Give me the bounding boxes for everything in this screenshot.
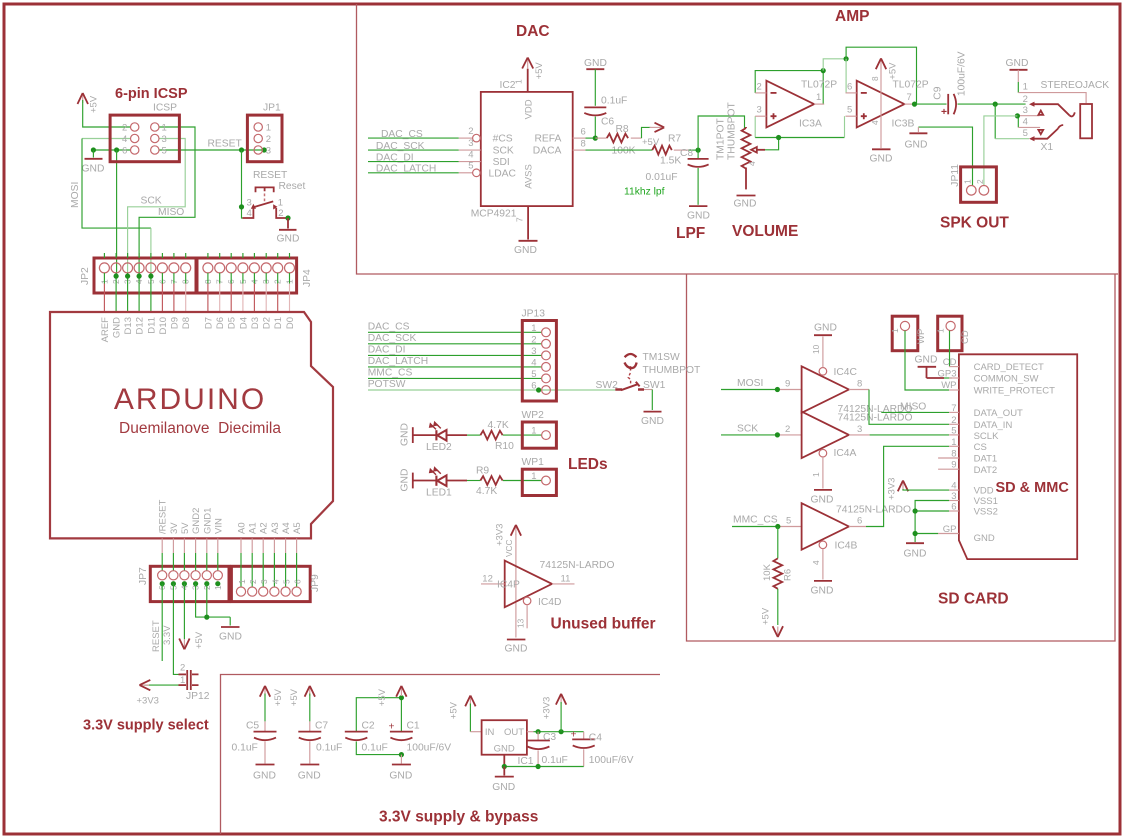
pin JP7 5 bbox=[172, 538, 174, 553]
svg-text:0.1uF: 0.1uF bbox=[232, 743, 258, 754]
junction IC3B minus node bbox=[844, 56, 849, 61]
LED LED1 bbox=[429, 467, 446, 486]
pin JP4 7 bbox=[219, 253, 221, 258]
svg-text:3.3V supply & bypass: 3.3V supply & bypass bbox=[379, 809, 538, 826]
svg-text:MISO: MISO bbox=[158, 207, 184, 218]
wire DAC_DI net bbox=[368, 161, 459, 163]
pin JP13 4 bbox=[542, 363, 551, 372]
svg-text:0.1uF: 0.1uF bbox=[542, 755, 568, 766]
wire REFA to junction bbox=[586, 137, 599, 139]
wire GND to COMMON_SW bbox=[927, 377, 945, 379]
pin WP2 1 bbox=[542, 431, 551, 440]
wire SCK net: ICSP pin3 to JP2 pin3 bbox=[128, 139, 186, 277]
pin ICSP 4 bbox=[131, 134, 139, 142]
ground GND (IC2) bbox=[514, 241, 538, 256]
pin 12 input bbox=[481, 583, 505, 585]
svg-text:DAT1: DAT1 bbox=[974, 454, 998, 465]
connector WP1 box bbox=[522, 469, 556, 495]
svg-text:+5V: +5V bbox=[377, 688, 388, 706]
svg-text:5: 5 bbox=[1023, 128, 1028, 139]
svg-text:SCK: SCK bbox=[141, 196, 162, 207]
svg-text:A3: A3 bbox=[270, 522, 281, 534]
svg-text:6-pin ICSP: 6-pin ICSP bbox=[115, 86, 188, 102]
svg-text:3: 3 bbox=[951, 491, 956, 502]
svg-text:7: 7 bbox=[951, 403, 956, 414]
junction JP7 bbox=[204, 581, 209, 586]
svg-text:1: 1 bbox=[531, 471, 536, 482]
wire output to C9 bbox=[917, 103, 947, 105]
pin 1 enable bottom bubble bbox=[819, 449, 827, 457]
wire +5V to IC1 IN bbox=[469, 704, 471, 732]
junction volume wiper node bbox=[776, 135, 781, 140]
svg-text:DAC: DAC bbox=[516, 23, 550, 40]
svg-text:C5: C5 bbox=[246, 721, 259, 732]
svg-text:4: 4 bbox=[747, 161, 757, 166]
junction MOSI bbox=[775, 387, 780, 392]
junction VSS2 bbox=[913, 508, 918, 513]
svg-text:1: 1 bbox=[890, 328, 900, 333]
wire C7 top bbox=[309, 694, 311, 722]
junction JP7 bbox=[182, 581, 187, 586]
svg-text:IC3A: IC3A bbox=[799, 119, 822, 130]
svg-text:+5V: +5V bbox=[194, 631, 205, 649]
svg-text:6: 6 bbox=[531, 381, 536, 392]
svg-text:1: 1 bbox=[278, 197, 283, 208]
svg-text:DAC_LATCH: DAC_LATCH bbox=[376, 164, 436, 175]
svg-text:TM1POT: TM1POT bbox=[716, 118, 727, 160]
svg-text:100uF/6V: 100uF/6V bbox=[589, 755, 634, 766]
svg-text:REFA: REFA bbox=[534, 134, 561, 145]
ground GND (JP7) bbox=[219, 617, 242, 642]
capacitor C2 0.1uF bbox=[345, 732, 368, 741]
svg-text:CARD_DETECT: CARD_DETECT bbox=[974, 362, 1044, 373]
svg-text:CD: CD bbox=[960, 330, 971, 344]
svg-text:2: 2 bbox=[531, 334, 536, 345]
section box 3.3V supply bbox=[221, 675, 661, 835]
power +5V arrow (IC1) bbox=[465, 696, 475, 707]
svg-text:VCC: VCC bbox=[504, 539, 514, 557]
svg-text:+3V3: +3V3 bbox=[887, 478, 898, 500]
wire IC3A feedback bbox=[755, 71, 823, 105]
svg-text:JP12: JP12 bbox=[186, 691, 210, 702]
svg-text:100uF/6V: 100uF/6V bbox=[407, 743, 452, 754]
svg-text:0.1uF: 0.1uF bbox=[362, 743, 388, 754]
SD card pin 6 VSS2 bbox=[949, 510, 959, 512]
pin 5 LDAC with bubble bbox=[459, 172, 473, 174]
svg-text:GND: GND bbox=[400, 423, 411, 446]
svg-text:LEDs: LEDs bbox=[568, 456, 608, 473]
connector X1 STEREOJACK bbox=[1018, 80, 1109, 153]
wire VSS1 VSS2 GND bus bbox=[915, 501, 949, 543]
wire DAC_DI to JP13 bbox=[368, 354, 542, 356]
connector JP4 box bbox=[197, 258, 297, 293]
svg-text:100K: 100K bbox=[612, 146, 636, 157]
svg-text:4: 4 bbox=[951, 481, 956, 492]
svg-text:JP1: JP1 bbox=[263, 103, 281, 114]
svg-text:3: 3 bbox=[259, 579, 269, 584]
svg-text:5V: 5V bbox=[180, 522, 191, 534]
junction JP1 pin3 bbox=[262, 147, 267, 152]
wire SCK to IC4A bbox=[721, 434, 777, 436]
svg-text:5: 5 bbox=[162, 146, 167, 157]
ground GND (LED2) rotated bbox=[400, 423, 413, 446]
svg-text:6: 6 bbox=[857, 515, 862, 526]
svg-text:D4: D4 bbox=[238, 317, 249, 329]
svg-text:+5V: +5V bbox=[761, 607, 772, 625]
wire MISO net: ICSP pin1 to JP2 pin4 bbox=[139, 127, 195, 276]
svg-text:IC3B: IC3B bbox=[892, 119, 915, 130]
svg-text:2: 2 bbox=[1023, 94, 1028, 105]
svg-text:VIN: VIN bbox=[213, 518, 224, 534]
pin ICSP 6 bbox=[131, 146, 139, 154]
svg-text:POTSW: POTSW bbox=[368, 379, 406, 390]
svg-text:3.3V supply select: 3.3V supply select bbox=[83, 718, 209, 734]
Arduino shield outline bbox=[50, 312, 333, 538]
wire MISO DATA_OUT bbox=[881, 411, 949, 413]
svg-text:3: 3 bbox=[1023, 105, 1028, 116]
svg-text:3: 3 bbox=[857, 424, 862, 435]
pin JP13 5 bbox=[542, 374, 551, 383]
svg-text:DATA_IN: DATA_IN bbox=[974, 420, 1013, 431]
svg-text:8: 8 bbox=[581, 139, 586, 150]
svg-text:GND: GND bbox=[112, 317, 123, 338]
svg-text:+5V: +5V bbox=[642, 137, 660, 148]
svg-text:SW2: SW2 bbox=[596, 380, 619, 391]
junction MMC_CS bbox=[775, 524, 780, 529]
svg-text:74125N-LARDO: 74125N-LARDO bbox=[540, 560, 615, 571]
svg-text:100uF/6V: 100uF/6V bbox=[957, 51, 968, 96]
pin 11 output bbox=[552, 583, 575, 585]
wire IC3B feedback top bbox=[846, 47, 916, 104]
svg-text:GND: GND bbox=[494, 743, 515, 754]
svg-text:3V: 3V bbox=[169, 522, 180, 534]
pin JP2 3 bbox=[127, 253, 129, 258]
wire C5 bottom bbox=[264, 742, 266, 764]
power +5V arrow (C1) bbox=[396, 686, 406, 697]
pin 4 enable bottom bubble bbox=[819, 541, 827, 549]
svg-text:2: 2 bbox=[468, 126, 473, 137]
pin WP1 1 bbox=[542, 476, 551, 485]
pin JP4 1 bbox=[289, 253, 291, 258]
svg-text:A2: A2 bbox=[259, 522, 270, 534]
wire RESET drop to switch contacts bbox=[241, 150, 244, 218]
junction JP2 pin3 bbox=[125, 274, 130, 279]
ground GND (IC1) bbox=[492, 767, 515, 794]
SD card pin 7 DATA_OUT bbox=[949, 411, 959, 413]
svg-text:DAC_CS: DAC_CS bbox=[368, 322, 410, 333]
wire DAC_SCK to JP13 bbox=[368, 343, 542, 345]
svg-text:12: 12 bbox=[482, 574, 493, 585]
wire CD to CARD_DETECT bbox=[949, 331, 951, 367]
svg-text:4: 4 bbox=[531, 357, 536, 368]
pin 2 #CS with bubble bbox=[459, 137, 473, 139]
power +3V3 arrow (IC1) bbox=[556, 694, 566, 705]
wire 3.3V to JP12 bbox=[173, 584, 178, 675]
svg-text:CS: CS bbox=[974, 442, 987, 453]
svg-text:GND: GND bbox=[253, 771, 276, 782]
svg-text:5: 5 bbox=[282, 579, 292, 584]
svg-text:AREF: AREF bbox=[100, 317, 111, 343]
svg-text:DAC_DI: DAC_DI bbox=[368, 345, 406, 356]
svg-text:3: 3 bbox=[757, 105, 762, 116]
svg-text:2: 2 bbox=[951, 415, 956, 426]
svg-text:4: 4 bbox=[270, 579, 280, 584]
buffer IC4D triangle bbox=[505, 561, 552, 608]
svg-text:GND: GND bbox=[389, 771, 412, 782]
connector JP13 box bbox=[522, 321, 556, 402]
wire LPF node to pot bbox=[698, 116, 744, 150]
svg-text:TL072P: TL072P bbox=[801, 79, 837, 90]
SD card pin GP3 bbox=[949, 377, 959, 379]
svg-text:SCLK: SCLK bbox=[974, 431, 999, 442]
svg-text:0.01uF: 0.01uF bbox=[646, 172, 678, 183]
switch lever SW2-SW1 bbox=[615, 382, 644, 390]
svg-text:R10: R10 bbox=[495, 441, 514, 452]
power +5V arrow (C5) bbox=[260, 686, 270, 697]
svg-text:1: 1 bbox=[266, 123, 271, 134]
SD card connector outline bbox=[959, 354, 1077, 559]
svg-text:GND2: GND2 bbox=[191, 508, 202, 534]
wire DAC_CS net bbox=[368, 137, 459, 139]
pin JP7 4 bbox=[183, 538, 185, 553]
svg-text:5: 5 bbox=[468, 161, 473, 172]
pin JP9 5 bbox=[285, 538, 287, 553]
svg-text:+5V: +5V bbox=[89, 95, 100, 113]
svg-text:5: 5 bbox=[786, 515, 791, 526]
svg-text:GND: GND bbox=[870, 154, 893, 165]
svg-text:D13: D13 bbox=[123, 317, 134, 334]
resistor R10 4.7K bbox=[480, 431, 502, 440]
svg-text:1: 1 bbox=[936, 328, 946, 333]
pin JP7 2 bbox=[206, 538, 208, 553]
junction LPF node bbox=[696, 148, 701, 153]
svg-text:MOSI: MOSI bbox=[70, 182, 81, 208]
wire LED2 to R10 bbox=[447, 434, 468, 436]
junction JP11 pin2 node bbox=[1015, 113, 1020, 118]
capacitor C4 100uF/6V polarized bbox=[571, 729, 596, 766]
svg-text:D7: D7 bbox=[203, 317, 214, 329]
svg-text:JP2: JP2 bbox=[80, 267, 91, 285]
svg-text:LED2: LED2 bbox=[426, 442, 452, 453]
svg-text:GND: GND bbox=[505, 644, 528, 655]
connector JP11 box bbox=[961, 167, 997, 202]
pin JP7 6 bbox=[161, 538, 163, 553]
svg-text:0.1uF: 0.1uF bbox=[601, 95, 627, 106]
svg-text:RESET: RESET bbox=[208, 138, 243, 149]
junction switch GND bbox=[285, 215, 290, 220]
svg-text:74125N-LARDO: 74125N-LARDO bbox=[836, 505, 911, 516]
svg-text:13: 13 bbox=[516, 618, 526, 628]
junction IC3B output bbox=[912, 102, 917, 107]
svg-text:#CS: #CS bbox=[493, 134, 513, 145]
svg-text:5: 5 bbox=[847, 105, 852, 116]
svg-text:JP13: JP13 bbox=[522, 309, 546, 320]
svg-text:3: 3 bbox=[162, 134, 167, 145]
junction jack node bbox=[993, 102, 998, 107]
svg-text:4: 4 bbox=[1023, 117, 1028, 128]
pin 4 SDI bbox=[459, 161, 481, 163]
ground GND (IC4D) bbox=[505, 640, 528, 655]
svg-text:7: 7 bbox=[515, 217, 525, 222]
pin CD 1 bbox=[946, 321, 955, 330]
resistor R6 10K vertical bbox=[777, 527, 779, 559]
svg-text:5: 5 bbox=[531, 369, 536, 380]
svg-text:GND: GND bbox=[219, 632, 242, 643]
svg-text:R8: R8 bbox=[616, 124, 629, 135]
op-amp IC3A TL072P bbox=[755, 81, 824, 128]
svg-text:MMC_CS: MMC_CS bbox=[368, 368, 413, 379]
wire R6 to +5V down arrow bbox=[777, 589, 779, 625]
wire JP11 pin2 to jack pin3 bbox=[984, 116, 1018, 186]
svg-text:C1: C1 bbox=[407, 721, 420, 732]
svg-text:GP: GP bbox=[943, 524, 957, 535]
pin JP13 3 bbox=[542, 351, 551, 360]
power +5V arrow (ICSP) bbox=[78, 93, 89, 104]
svg-text:GND: GND bbox=[904, 549, 927, 560]
svg-text:1: 1 bbox=[162, 123, 167, 134]
wire MMC_CS to IC4B bbox=[732, 526, 778, 528]
wire +3V3 to JP12 pin1 bbox=[144, 684, 179, 686]
svg-text:10: 10 bbox=[811, 344, 821, 354]
junction REFA node bbox=[593, 136, 598, 141]
wire C1 bottom stub bbox=[400, 755, 402, 764]
junction JP7 bbox=[171, 581, 176, 586]
power +5V arrow (IC3B) bbox=[876, 58, 886, 69]
capacitor C6 0.1uF bbox=[584, 107, 606, 115]
svg-text:D12: D12 bbox=[135, 317, 146, 334]
svg-text:LDAC: LDAC bbox=[489, 168, 517, 179]
capacitor C8 0.01uF bbox=[688, 150, 709, 205]
junction C3 top bbox=[536, 729, 541, 734]
svg-text:AMP: AMP bbox=[835, 8, 869, 25]
pin JP1 2 bbox=[254, 134, 262, 142]
pin JP4 3 bbox=[265, 253, 267, 258]
SD card pin GP GND bbox=[938, 533, 959, 535]
jumper JP12 3.3V supply select bbox=[179, 663, 210, 703]
svg-text:IC4C: IC4C bbox=[834, 367, 858, 378]
svg-text:GND: GND bbox=[584, 58, 607, 69]
pin JP11 1 bbox=[967, 186, 977, 196]
wire POTSW to JP13 and SW bbox=[368, 389, 615, 391]
svg-text:D10: D10 bbox=[158, 317, 169, 334]
svg-text:GND: GND bbox=[492, 782, 515, 793]
junction GND JP7 bbox=[204, 615, 209, 620]
junction JP13 pin6 bbox=[536, 387, 541, 392]
op-amp IC3B TL072P bbox=[846, 81, 917, 128]
SD card pin 3 VSS1 bbox=[949, 500, 959, 502]
svg-text:WP: WP bbox=[941, 380, 956, 391]
svg-text:+3V3: +3V3 bbox=[137, 696, 159, 707]
svg-text:D0: D0 bbox=[285, 317, 296, 329]
junction JP7 bbox=[215, 581, 220, 586]
svg-text:SCK: SCK bbox=[737, 423, 758, 434]
power pin 8 +5V stem through IC3B bbox=[880, 68, 882, 149]
wire ICSP pin6 column down to JP2 pin2 bbox=[116, 150, 118, 276]
ground GND (C6 top) bbox=[584, 58, 607, 106]
junction C1 bottom bbox=[399, 752, 404, 757]
svg-text:DAC_LATCH: DAC_LATCH bbox=[368, 356, 428, 367]
svg-text:LED1: LED1 bbox=[426, 487, 452, 498]
svg-text:GND: GND bbox=[811, 586, 834, 597]
pin WP 1 bbox=[900, 321, 909, 330]
svg-text:11: 11 bbox=[561, 574, 571, 585]
svg-text:GP3: GP3 bbox=[937, 369, 956, 380]
svg-text:GND: GND bbox=[277, 234, 300, 245]
connector WP2 box bbox=[522, 422, 556, 448]
svg-text:WP2: WP2 bbox=[522, 410, 545, 421]
junction +3V3 node bbox=[559, 729, 564, 734]
svg-text:1: 1 bbox=[514, 79, 524, 84]
svg-text:ARDUINO: ARDUINO bbox=[114, 383, 266, 416]
wire MOSI net: ICSP pin4 to JP2 pin5 bbox=[82, 138, 131, 140]
wire +5V to ICSP pin2 bbox=[83, 100, 131, 127]
wire DAC_SCK net bbox=[368, 149, 459, 151]
power +3V3 arrow (VDD) bbox=[898, 481, 908, 492]
svg-text:DAC_SCK: DAC_SCK bbox=[376, 141, 425, 152]
svg-text:+5V: +5V bbox=[273, 688, 284, 706]
svg-text:VDD: VDD bbox=[974, 486, 994, 497]
pin ICSP 1 bbox=[151, 123, 159, 131]
pin JP4 6 bbox=[230, 253, 232, 258]
svg-text:D8: D8 bbox=[181, 317, 192, 329]
svg-text:SD CARD: SD CARD bbox=[938, 591, 1009, 608]
svg-text:2: 2 bbox=[180, 663, 185, 674]
svg-text:8: 8 bbox=[951, 449, 956, 460]
junction IC3A feedback bbox=[821, 68, 826, 73]
junction GND bbox=[91, 147, 96, 152]
svg-text:2: 2 bbox=[122, 123, 127, 134]
wire JP7 pin2 drop bbox=[206, 584, 208, 617]
svg-text:GND: GND bbox=[1006, 58, 1029, 69]
wire C2 C1 top net bbox=[356, 698, 401, 731]
pin JP2 2 bbox=[115, 253, 117, 258]
svg-text:9: 9 bbox=[785, 379, 790, 390]
svg-text:Reset: Reset bbox=[279, 181, 306, 192]
svg-text:6: 6 bbox=[951, 502, 956, 513]
svg-text:VDD: VDD bbox=[524, 99, 535, 119]
junction C1 top bbox=[399, 695, 404, 700]
svg-text:DACA: DACA bbox=[533, 146, 562, 157]
svg-text:A1: A1 bbox=[248, 522, 259, 534]
svg-text:1: 1 bbox=[180, 675, 185, 686]
pin JP7 3 bbox=[195, 538, 197, 553]
svg-text:4: 4 bbox=[247, 208, 252, 219]
svg-text:1: 1 bbox=[951, 437, 956, 448]
power +5V arrow (IC2) bbox=[522, 58, 533, 69]
svg-text:1: 1 bbox=[531, 426, 536, 437]
svg-text:C8: C8 bbox=[680, 148, 693, 159]
svg-text:11khz lpf: 11khz lpf bbox=[624, 187, 665, 198]
svg-text:MMC_CS: MMC_CS bbox=[733, 515, 778, 526]
ground GND (C8) bbox=[687, 206, 710, 221]
svg-text:4: 4 bbox=[468, 149, 473, 160]
svg-text:SD & MMC: SD & MMC bbox=[996, 480, 1070, 496]
svg-text:7: 7 bbox=[907, 92, 912, 103]
wire +3V3 to VDD bbox=[903, 489, 949, 490]
wire IC1 GND bottom net bbox=[503, 755, 505, 767]
svg-text:IN: IN bbox=[485, 727, 495, 738]
svg-text:+5V: +5V bbox=[534, 62, 545, 80]
svg-text:MOSI: MOSI bbox=[737, 378, 763, 389]
svg-text:D1: D1 bbox=[273, 317, 284, 329]
svg-text:JP4: JP4 bbox=[302, 269, 313, 287]
capacitor C1 100uF/6V polarized bbox=[389, 722, 413, 741]
svg-text:6: 6 bbox=[847, 82, 852, 93]
svg-text:+: + bbox=[389, 722, 395, 733]
svg-text:MISO: MISO bbox=[900, 402, 926, 413]
wire GND to LED1 bbox=[413, 480, 436, 482]
power +5V arrow down (R6) bbox=[773, 626, 783, 637]
